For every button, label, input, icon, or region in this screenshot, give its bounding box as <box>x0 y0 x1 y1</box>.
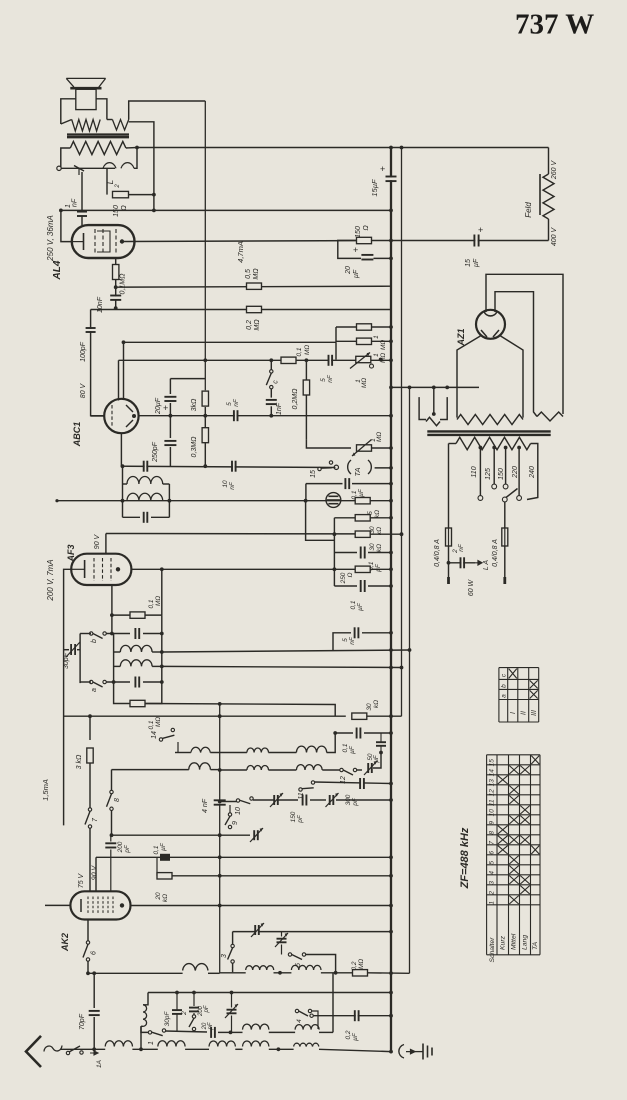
svg-text:L A: L A <box>483 560 490 570</box>
svg-text:100pF: 100pF <box>80 341 87 362</box>
switch row1016 <box>310 1014 313 1017</box>
svg-text:20µF: 20µF <box>155 397 162 415</box>
IF cap secondary <box>123 512 170 523</box>
trimmer band <box>364 751 383 775</box>
svg-text:MΩ: MΩ <box>358 959 365 969</box>
label 90V ak2 <box>92 864 99 880</box>
svg-text:a: a <box>501 694 508 698</box>
svg-text:5: 5 <box>489 861 496 865</box>
coil frame antenna <box>141 993 148 1027</box>
potentiometer 1M tone <box>306 432 393 456</box>
coil osc 2 <box>114 660 164 669</box>
resistor 30k b <box>106 531 404 552</box>
trimmer row931 <box>251 923 264 937</box>
svg-text:0,4/0,8 A: 0,4/0,8 A <box>492 539 499 567</box>
svg-text:250 V, 36mA: 250 V, 36mA <box>46 215 55 262</box>
tap 110 <box>471 446 483 501</box>
capacitor 15uF electrolytic <box>370 146 397 196</box>
svg-text:30pF: 30pF <box>63 652 70 669</box>
capacitor 1nF c <box>266 389 283 418</box>
svg-text:+: + <box>380 164 385 174</box>
svg-text:AK2: AK2 <box>60 933 70 952</box>
label ZF 488kHz <box>459 827 471 889</box>
switch 2 <box>181 1011 196 1031</box>
capacitor osc b <box>106 628 164 639</box>
svg-text:5: 5 <box>342 638 349 642</box>
trimmer hang row931 <box>275 932 288 955</box>
switch 6 <box>83 941 98 961</box>
coil ant4 <box>243 1041 294 1051</box>
wire fuse1 line <box>448 444 450 529</box>
label 250V 36mA <box>46 215 55 262</box>
wire magic eye feed <box>306 501 335 541</box>
svg-text:0,3MΩ: 0,3MΩ <box>191 436 198 458</box>
tube AK2 envelope <box>70 891 130 919</box>
wire primary tap to rail <box>129 122 154 211</box>
switch 5 <box>288 953 335 973</box>
wire switch8 down <box>110 811 114 838</box>
svg-text:3: 3 <box>489 881 496 885</box>
winding mains primary <box>449 437 538 499</box>
capacitor 20uF ABC1 <box>155 379 176 416</box>
wire AZ1 anode loop inner <box>495 292 537 417</box>
label AZ1 <box>456 328 466 346</box>
svg-text:240: 240 <box>529 466 536 479</box>
switch 11 <box>298 781 315 800</box>
svg-text:Ω: Ω <box>347 572 354 577</box>
svg-text:3 kΩ: 3 kΩ <box>76 754 83 769</box>
resistor 0.1M osc lower <box>114 682 162 730</box>
wire ABC1 grid bus <box>91 310 105 416</box>
wire row931 <box>233 930 393 934</box>
tube AL4 envelope <box>72 225 135 258</box>
svg-text:250: 250 <box>340 572 347 584</box>
svg-text:110: 110 <box>471 466 478 477</box>
fuse 0.4/0.8A right <box>492 528 508 567</box>
wire resistor bank bracket <box>333 518 335 586</box>
table switch matrix <box>487 755 540 963</box>
svg-text:nF: nF <box>327 374 334 383</box>
switch 3 <box>221 944 234 963</box>
speaker LS <box>66 78 105 109</box>
capacitor 20pF <box>202 1022 232 1038</box>
wire sw14 stub <box>177 742 179 753</box>
capacitor 200pF ak2 <box>105 835 131 891</box>
wire row 801 left <box>297 791 299 802</box>
svg-text:15µF: 15µF <box>370 179 379 197</box>
wire AVC row <box>122 340 336 344</box>
svg-text:kΩ: kΩ <box>376 544 383 552</box>
svg-text:+: + <box>353 245 358 255</box>
svg-text:60 W: 60 W <box>468 578 475 596</box>
resistor 1M avc lower <box>336 338 393 363</box>
svg-text:AL4: AL4 <box>52 260 63 280</box>
svg-text:ABC1: ABC1 <box>72 422 82 448</box>
wire AK2 plate row <box>131 904 393 908</box>
svg-text:+: + <box>478 225 483 235</box>
coil rf row1 a <box>131 752 191 754</box>
wire ABC1 plate row <box>119 358 393 362</box>
wire AF3 cathode left <box>64 569 72 825</box>
svg-text:nF: nF <box>233 398 240 407</box>
svg-text:pF: pF <box>352 797 359 807</box>
label ABC1 <box>72 422 82 448</box>
svg-text:2: 2 <box>115 184 121 189</box>
wire osc left rail <box>79 634 81 684</box>
wire AZ1 filament right <box>499 335 523 418</box>
tube ABC1 diode strokes <box>126 405 136 427</box>
label AF3 <box>66 544 76 562</box>
tube AK2 grids <box>88 897 113 915</box>
svg-text:9: 9 <box>489 821 496 825</box>
svg-text:5: 5 <box>320 378 327 382</box>
label LA <box>483 560 490 570</box>
coil row973 c <box>291 965 352 974</box>
svg-text:4: 4 <box>296 1019 303 1023</box>
svg-text:0,1: 0,1 <box>342 743 349 752</box>
IF transformer left side <box>121 464 125 517</box>
coil ant row973 <box>183 964 220 974</box>
svg-text:30: 30 <box>366 703 373 711</box>
svg-text:11: 11 <box>489 799 496 806</box>
svg-text:pF: pF <box>204 1005 210 1013</box>
svg-text:200: 200 <box>117 841 124 853</box>
wire AL4 cathode to rail <box>61 210 72 241</box>
coil row1032 a <box>231 1024 296 1032</box>
switch 1A <box>66 1046 103 1068</box>
antenna squiggle <box>44 1046 62 1052</box>
wire row857 <box>96 855 393 859</box>
label 90V AF3 <box>94 533 101 549</box>
svg-text:150: 150 <box>498 468 505 480</box>
capacitor osc a <box>106 677 164 688</box>
wire AK2 cathode down <box>87 920 89 942</box>
wire 90V lead <box>95 857 97 891</box>
wire row931 drop <box>232 932 234 945</box>
wire switch8 top row <box>111 763 113 770</box>
svg-text:0,2: 0,2 <box>246 320 253 330</box>
resistor 0.1M AL4 grid leak <box>113 258 127 294</box>
svg-text:10: 10 <box>489 809 496 817</box>
svg-text:TA: TA <box>353 467 362 476</box>
svg-text:4 nF: 4 nF <box>202 798 209 813</box>
svg-text:4: 4 <box>489 871 496 875</box>
wire 20uF link <box>170 379 205 391</box>
wire fuse2 to plug <box>504 546 506 584</box>
label 80V <box>80 382 87 398</box>
wire row876 stub <box>156 857 158 876</box>
svg-text:250pF: 250pF <box>152 441 159 463</box>
svg-text:80 V: 80 V <box>80 382 87 398</box>
svg-text:0,1: 0,1 <box>296 347 303 356</box>
wire row1016 <box>314 1014 393 1018</box>
resistor 3k <box>191 358 209 415</box>
svg-text:MΩ: MΩ <box>304 345 311 355</box>
tube AL4 cathode bar <box>72 233 84 250</box>
wire grid leak junction <box>114 285 118 289</box>
field coil Feld <box>524 160 558 247</box>
svg-text:0,2: 0,2 <box>345 1030 352 1039</box>
coil row1032 b <box>295 1025 333 1033</box>
trimmer row801 a <box>270 793 283 807</box>
svg-text:kΩ: kΩ <box>162 894 169 902</box>
capacitor 30pF <box>164 991 182 1031</box>
wire bracket2 <box>332 973 334 1033</box>
switch 12 <box>340 768 362 784</box>
transformer core mains <box>427 431 550 435</box>
svg-text:µF: µF <box>353 269 360 278</box>
tube ABC1 cathode dash <box>111 405 113 427</box>
capacitor 150pF <box>290 795 326 824</box>
wire row650 to bus3 <box>160 648 411 654</box>
svg-text:0,4/0,8 A: 0,4/0,8 A <box>434 539 441 567</box>
resistor 30k a <box>334 515 393 536</box>
tube AZ1 filament <box>481 330 499 337</box>
svg-text:0,2MΩ: 0,2MΩ <box>292 388 299 410</box>
svg-text:400 V: 400 V <box>551 227 558 247</box>
wire row 765 coils <box>190 769 192 771</box>
resistor 30k screen <box>352 700 402 720</box>
svg-text:nF: nF <box>458 543 465 552</box>
svg-text:20: 20 <box>155 892 162 901</box>
svg-text:Ω: Ω <box>363 225 370 231</box>
wire primary to top line <box>129 101 206 120</box>
svg-text:pF: pF <box>124 844 131 854</box>
ground symbol <box>415 1044 432 1060</box>
magic eye indicator <box>326 493 341 508</box>
IF coil primary <box>123 477 170 484</box>
capacitor 70pF <box>79 971 100 1051</box>
label 240 <box>529 466 536 479</box>
earth connector <box>399 1045 415 1059</box>
tube AL4 anode dot <box>120 239 124 243</box>
switch 10 <box>220 797 254 815</box>
switch 8 <box>107 770 122 811</box>
svg-text:nF: nF <box>229 481 236 490</box>
svg-text:µF: µF <box>358 488 365 497</box>
IF transformer right side <box>168 484 172 517</box>
svg-text:4,7mA: 4,7mA <box>236 241 245 263</box>
wire dial lamp tap <box>449 561 483 565</box>
wire switch3 down <box>232 963 234 972</box>
svg-text:Schalter: Schalter <box>489 937 496 963</box>
svg-text:1: 1 <box>148 1041 155 1045</box>
svg-text:14: 14 <box>489 769 496 777</box>
wire loop coil <box>140 1026 142 1049</box>
wire ABC1 plate out row <box>139 414 393 418</box>
resistor 1M avc upper <box>336 324 393 360</box>
trimmer 30pF <box>63 642 80 669</box>
trimmer row801 b <box>326 793 393 807</box>
wire AZ1 anode loop outer <box>486 274 563 414</box>
wire ABC1 grid <box>91 415 105 417</box>
capacitor 0.1uF block <box>153 842 170 861</box>
wire AF3 leads down <box>112 567 164 633</box>
label 1.5mA <box>41 779 50 801</box>
svg-text:Mittel: Mittel <box>511 933 518 950</box>
capacitor 0.1uF bank <box>334 547 393 572</box>
svg-text:90 V: 90 V <box>92 864 99 880</box>
capacitor 300pF <box>345 778 364 807</box>
svg-text:b: b <box>91 639 98 643</box>
wire AVC lead <box>123 342 125 400</box>
potentiometer 1M volume <box>350 353 383 389</box>
svg-text:15: 15 <box>310 470 317 478</box>
svg-text:MΩ: MΩ <box>361 378 368 388</box>
resistor 0.5M <box>245 268 262 290</box>
tube AF3 envelope <box>71 554 131 585</box>
resistor 0.3M <box>191 414 209 468</box>
svg-text:1: 1 <box>373 353 380 357</box>
svg-text:Feld: Feld <box>524 202 533 218</box>
switch 7 sym <box>85 808 99 828</box>
resistor 5k <box>355 498 381 519</box>
switch b <box>80 632 106 643</box>
svg-text:MΩ: MΩ <box>155 596 162 606</box>
svg-text:7: 7 <box>489 841 496 845</box>
wire 20uF to bus <box>374 257 393 261</box>
antenna symbol <box>26 1036 41 1067</box>
svg-text:8: 8 <box>489 831 496 835</box>
svg-text:90 V: 90 V <box>94 533 101 549</box>
svg-text:kΩ: kΩ <box>374 510 381 518</box>
svg-text:kΩ: kΩ <box>373 700 380 708</box>
wire row667 to bus2 <box>162 666 404 670</box>
tube AL4 grids dashed <box>95 229 116 254</box>
label AL4 <box>52 260 63 280</box>
svg-text:a: a <box>91 688 98 692</box>
resistor 0.2M <box>246 306 262 330</box>
switch 4 <box>295 1009 318 1029</box>
coil row2 b <box>218 765 340 772</box>
svg-text:µF: µF <box>375 563 382 572</box>
svg-text:9: 9 <box>232 821 239 825</box>
svg-text:30: 30 <box>369 543 376 551</box>
switch 7 <box>88 714 92 740</box>
wire vmid lower <box>219 906 221 973</box>
svg-text:6: 6 <box>489 851 496 855</box>
svg-text:0,1: 0,1 <box>148 720 155 729</box>
wire cathode row 716 <box>64 714 346 718</box>
switch tap on L2 row <box>74 166 84 176</box>
svg-text:220: 220 <box>512 466 519 479</box>
terminal circle speech coil <box>57 166 61 170</box>
IF coil secondary <box>127 493 163 500</box>
svg-text:MΩ: MΩ <box>253 268 260 280</box>
svg-text:70pF: 70pF <box>79 1013 86 1030</box>
wire secondary left down <box>61 148 71 168</box>
wire det row <box>121 433 335 467</box>
wire top line y146 <box>547 150 549 152</box>
switch 9 <box>225 805 239 829</box>
tap 150 <box>498 446 508 489</box>
svg-text:0,1: 0,1 <box>350 600 357 609</box>
wire AK2 stub left <box>45 904 70 906</box>
bus 3 <box>408 386 412 974</box>
svg-text:8: 8 <box>114 798 121 802</box>
coil row1 b <box>175 733 335 753</box>
resistor 0.2M ant <box>351 959 410 976</box>
wire L2 tap branch <box>106 168 108 194</box>
resistor 0.2M detload <box>292 360 310 440</box>
tube AF3 grids <box>94 558 111 581</box>
capacitor 5nF af <box>320 355 334 383</box>
svg-text:0,5: 0,5 <box>245 269 252 279</box>
wire indicator row <box>55 499 393 503</box>
svg-text:AZ1: AZ1 <box>456 328 466 346</box>
svg-text:737 W: 737 W <box>515 9 594 41</box>
wire plate row junction c <box>269 358 308 362</box>
tube ABC1 envelope <box>104 399 138 433</box>
svg-text:2: 2 <box>181 1011 188 1016</box>
switch c <box>266 360 279 389</box>
wire AZ1 filament left <box>457 335 482 418</box>
wire af3 plate row <box>131 567 393 571</box>
wire selector down fuse2 <box>504 502 506 528</box>
resistor 150ohm cathode <box>355 225 393 244</box>
capacitor 5nF decoupling <box>333 627 393 650</box>
svg-text:µF: µF <box>473 258 480 267</box>
capacitor 10nF det <box>222 461 236 490</box>
wire 0.2M to pot2 <box>306 439 351 441</box>
svg-text:3kΩ: 3kΩ <box>191 398 198 411</box>
wire secondary right drop <box>134 148 137 169</box>
svg-text:75 V: 75 V <box>78 872 85 888</box>
capacitor zf coupling <box>144 461 148 472</box>
coil ant1 <box>105 1041 158 1051</box>
svg-text:0,1MΩ: 0,1MΩ <box>120 273 127 295</box>
svg-text:10nF: 10nF <box>97 296 104 313</box>
svg-text:10: 10 <box>222 480 229 488</box>
svg-text:MΩ: MΩ <box>376 432 383 442</box>
capacitor 2nF <box>452 543 465 568</box>
tube AZ1 envelope <box>476 310 505 339</box>
svg-text:AF3: AF3 <box>66 544 76 562</box>
svg-text:2: 2 <box>489 891 496 896</box>
output transformer secondary winding <box>70 142 126 155</box>
wire Feld to row240 <box>548 219 550 241</box>
svg-text:+: + <box>163 403 168 413</box>
wire heater supply row <box>389 386 479 390</box>
label AK2 <box>60 933 70 952</box>
wire bracket x333 <box>332 955 334 1033</box>
svg-text:13: 13 <box>489 779 496 787</box>
capacitor 0.1uF band <box>333 728 393 754</box>
wire L2 row <box>61 167 115 169</box>
coil ant2 <box>158 1041 209 1050</box>
svg-text:pF: pF <box>297 814 304 824</box>
tube AK2 cathode <box>80 899 82 912</box>
wire b row left <box>80 633 91 635</box>
trimmer row835 <box>250 828 263 842</box>
svg-text:0,1: 0,1 <box>148 599 155 608</box>
wire row 835 <box>112 833 251 837</box>
jack TA <box>334 460 371 477</box>
switch a <box>80 680 106 692</box>
svg-text:1,5mA: 1,5mA <box>41 779 50 801</box>
capacitor 20uF cathode bypass <box>345 245 373 278</box>
wire AL4 anode row 4.7mA <box>122 241 357 263</box>
wire osc feedback row <box>145 702 335 716</box>
wire ABC1 plate lead <box>118 360 120 400</box>
svg-text:150: 150 <box>290 811 297 822</box>
resistor 3k osc cath <box>76 748 93 808</box>
svg-text:1: 1 <box>489 901 496 905</box>
winding HV secondary <box>457 415 523 425</box>
tube AF3 anode dot <box>116 567 120 571</box>
title 737 W <box>515 9 594 41</box>
winding tube heater <box>419 387 447 425</box>
